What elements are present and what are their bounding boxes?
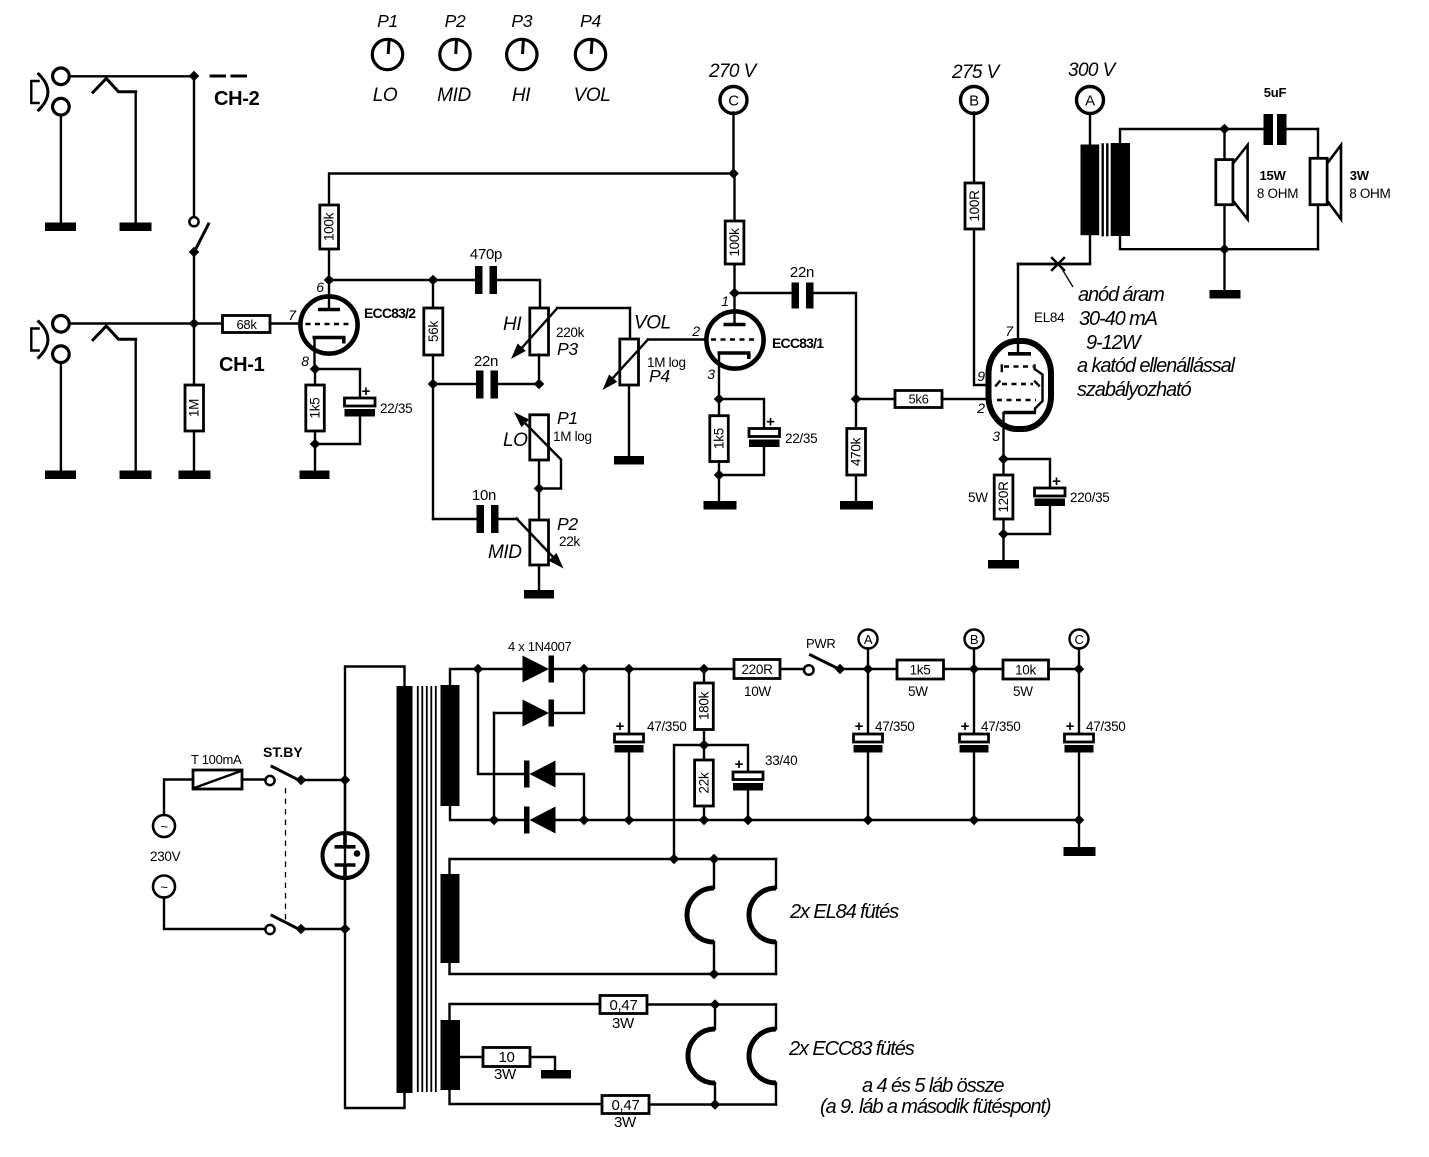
- node C12 bottom: [969, 815, 980, 826]
- wire to ground EL84 cathode: [1002, 534, 1004, 560]
- ground P4: [614, 456, 644, 465]
- node P1 bottom: [534, 483, 545, 494]
- node lamp top: [340, 775, 351, 786]
- resistor R7 470k grid leak: [847, 399, 866, 501]
- heater filament EL84 b: [749, 859, 776, 974]
- svg-text:5W: 5W: [908, 684, 928, 699]
- svg-text:C: C: [1074, 632, 1083, 647]
- ground 470k: [840, 501, 873, 510]
- node C rail junction: [1074, 664, 1085, 675]
- svg-text:PWR: PWR: [806, 636, 835, 651]
- node lamp bottom: [340, 924, 351, 935]
- svg-text:33/40: 33/40: [765, 753, 797, 768]
- svg-text:22/35: 22/35: [380, 401, 412, 416]
- svg-text:15W: 15W: [1260, 168, 1287, 183]
- switch link dashed: [285, 788, 287, 921]
- svg-text:~: ~: [160, 819, 168, 834]
- svg-text:4 x 1N4007: 4 x 1N4007: [508, 639, 572, 654]
- svg-text:56k: 56k: [426, 321, 441, 342]
- node 33/40 bottom: [743, 815, 754, 826]
- svg-text:+: +: [855, 718, 864, 735]
- svg-text:22k: 22k: [697, 772, 712, 793]
- svg-text:22n: 22n: [474, 353, 498, 370]
- svg-text:+: +: [766, 414, 775, 431]
- node cathode bottom ECC83/2: [310, 439, 321, 450]
- potentiometer knob P4: [574, 11, 611, 106]
- node heater ref tap: [669, 854, 680, 865]
- svg-text:CH-2: CH-2: [214, 88, 260, 110]
- svg-text:3W: 3W: [494, 1066, 517, 1083]
- capacitor C8 5uF: [1264, 85, 1319, 145]
- resistor R14 1k5 5W: [897, 660, 1003, 699]
- svg-text:1k5: 1k5: [712, 428, 727, 449]
- svg-text:9-12W: 9-12W: [1086, 332, 1143, 354]
- node B 275V: [951, 62, 1002, 183]
- heater filament ECC83 b: [749, 1005, 776, 1105]
- svg-text:P3: P3: [557, 339, 578, 359]
- resistor R15 10k 5W: [1003, 660, 1079, 699]
- node CH1 junction: [189, 318, 200, 329]
- ground J2 sleeve: [45, 223, 76, 232]
- switch ST.BY pole 1: [265, 767, 345, 786]
- resistor R13 220R 10W: [734, 660, 805, 700]
- svg-text:P3: P3: [511, 11, 532, 31]
- node 22k bottom: [699, 815, 710, 826]
- resistor R10 120R cathode EL84: [994, 459, 1013, 534]
- svg-text:5k6: 5k6: [908, 392, 928, 407]
- svg-text:a 4 és 5 láb össze: a 4 és 5 láb össze: [862, 1075, 1004, 1097]
- node 180k 22k junction: [699, 740, 710, 751]
- leader line to text: [1062, 269, 1073, 287]
- capacitor C12 47/350 node B: [960, 669, 1021, 820]
- svg-text:3: 3: [992, 428, 1000, 444]
- fuse F1 T 100mA: [191, 752, 242, 789]
- svg-text:47/350: 47/350: [647, 719, 687, 734]
- input jack J2 (CH-2): [31, 68, 69, 115]
- resistor R17 10 3W: [483, 1048, 555, 1084]
- ground heater center tap: [541, 1070, 571, 1079]
- svg-text:+: +: [961, 718, 970, 735]
- svg-text:szabályozható: szabályozható: [1077, 379, 1192, 401]
- node B psu: [965, 630, 984, 670]
- transformer core lines: [418, 686, 436, 1092]
- potentiometer P4 1M log VOL: [603, 308, 707, 456]
- diode D4 1N4007: [524, 807, 556, 834]
- resistor R9 100R screen: [965, 183, 989, 385]
- svg-text:220/35: 220/35: [1070, 490, 1110, 505]
- capacitor C5 22/35 cathode bypass ECC83/1: [719, 399, 817, 475]
- ground J1 sleeve: [45, 471, 76, 480]
- resistor R2 100k plate ECC83/2: [320, 205, 339, 280]
- svg-text:3W: 3W: [614, 1114, 637, 1131]
- svg-text:1: 1: [721, 293, 729, 309]
- triode U1a ECC83/1: [706, 311, 763, 399]
- resistor R8 5k6 grid stopper EL84: [856, 391, 989, 408]
- wire ECC83 heater bottom rail: [450, 1090, 603, 1104]
- svg-text:10W: 10W: [744, 684, 771, 699]
- T1 6.3V winding ECC83: [441, 1020, 461, 1090]
- wire D2 anode down: [493, 713, 495, 820]
- node D1 D2 cathodes: [579, 664, 590, 675]
- svg-text:8 OHM: 8 OHM: [1257, 186, 1298, 201]
- capacitor C9 47/350 reservoir: [615, 669, 687, 820]
- node speaker bottom: [1219, 244, 1230, 255]
- svg-text:CH-1: CH-1: [219, 354, 265, 376]
- node junction C rail: [728, 168, 739, 179]
- svg-text:+: +: [1052, 473, 1061, 490]
- wire plate row ECC83/2: [329, 279, 475, 281]
- wire fuse to switch: [242, 778, 266, 780]
- svg-text:7: 7: [288, 307, 297, 323]
- svg-text:(a 9. láb a második fütéspont): (a 9. láb a második fütéspont): [820, 1096, 1051, 1118]
- wire ECC83 heater top rail: [450, 1004, 601, 1020]
- svg-text:8 OHM: 8 OHM: [1349, 186, 1390, 201]
- svg-text:1k5: 1k5: [910, 663, 931, 678]
- potentiometer P1 1M log LO: [514, 412, 561, 520]
- node plate ECC83/2: [324, 275, 335, 286]
- resistor R16 0,47 3W top: [600, 996, 776, 1033]
- svg-text:120R: 120R: [996, 481, 1011, 513]
- wire EL84 heater bottom rail: [450, 963, 777, 974]
- resistor 1M input load: [185, 324, 204, 471]
- pilot lamp: [323, 780, 368, 929]
- svg-text:MID: MID: [488, 542, 522, 563]
- svg-text:P1: P1: [377, 11, 398, 31]
- svg-text:22n: 22n: [790, 264, 814, 281]
- node ECC83 heater bottom: [710, 1099, 721, 1110]
- diode D2 1N4007: [494, 669, 584, 727]
- node 470k top: [851, 394, 862, 405]
- svg-text:1k5: 1k5: [308, 398, 323, 419]
- svg-text:~: ~: [160, 880, 168, 895]
- diode D3 1N4007: [524, 761, 584, 821]
- ground J2 shunt: [120, 223, 152, 232]
- svg-text:B: B: [969, 93, 979, 110]
- potentiometer P2 22k MID: [517, 519, 564, 591]
- svg-text:P2: P2: [445, 11, 466, 31]
- node cathode ECC83/2: [310, 364, 321, 375]
- node plate ECC83/1: [729, 288, 740, 299]
- svg-text:230V: 230V: [150, 849, 181, 864]
- node EL84 heater bottom: [709, 969, 720, 980]
- svg-text:300 V: 300 V: [1068, 60, 1118, 81]
- note anode current text: [1077, 284, 1236, 401]
- capacitor C1 22/35 cathode bypass: [315, 369, 412, 444]
- resistor R18 0,47 3W bottom: [602, 1096, 776, 1132]
- ground EL84 cathode: [988, 560, 1019, 569]
- wire junction to heater reference: [674, 745, 704, 859]
- capacitor C3 22n tone: [433, 353, 539, 399]
- ground 1M: [179, 471, 211, 480]
- mains transformer T1 primary winding: [397, 686, 413, 1093]
- wire J2 tip to node CH2: [70, 75, 195, 77]
- svg-text:10n: 10n: [472, 487, 496, 504]
- node C9 top: [624, 664, 635, 675]
- switch PWR: [804, 655, 897, 675]
- resistor R11 180k bleeder: [695, 669, 714, 760]
- rectifier top rail: [478, 668, 734, 670]
- svg-text:HI: HI: [512, 85, 531, 106]
- wire HV bottom to bridge: [450, 806, 494, 820]
- svg-text:470p: 470p: [470, 246, 502, 263]
- svg-text:10k: 10k: [1015, 663, 1036, 678]
- potentiometer knob P1: [372, 11, 402, 106]
- svg-text:C: C: [728, 93, 739, 110]
- switch ST.BY pole 2: [265, 916, 345, 935]
- wire AC1 to D3: [478, 669, 524, 774]
- node C13 bottom: [1074, 815, 1085, 826]
- wire speaker ground: [1223, 249, 1225, 290]
- svg-text:68k: 68k: [236, 317, 257, 332]
- svg-text:22k: 22k: [559, 534, 580, 549]
- capacitor C11 47/350 node A: [854, 669, 915, 820]
- wire N to switch pole 2: [164, 898, 266, 930]
- ground P2: [524, 590, 554, 599]
- potentiometer P3 220k HI: [511, 308, 630, 384]
- capacitor C2 470p: [470, 246, 540, 308]
- ground J1 shunt: [120, 471, 152, 480]
- svg-text:3W: 3W: [1350, 168, 1370, 183]
- svg-text:2: 2: [691, 323, 700, 339]
- wire pin 6 stub: [328, 280, 330, 309]
- svg-text:+: +: [735, 756, 744, 773]
- svg-text:47/350: 47/350: [875, 719, 915, 734]
- wire pin 1 stub: [733, 293, 735, 324]
- node P3 bottom: [534, 379, 545, 390]
- dashed stubs right of CH2 node: [211, 75, 246, 78]
- wire primary loop: [345, 667, 405, 1109]
- wire 56k column down: [432, 384, 434, 519]
- node A rail junction: [863, 664, 874, 675]
- svg-text:ECC83/1: ECC83/1: [772, 335, 824, 351]
- capacitor C13 47/350 node C: [1065, 669, 1126, 820]
- node cathode bottom ECC83/1: [714, 470, 725, 481]
- potentiometer knob P2: [437, 11, 471, 106]
- X measuring point: [1052, 258, 1064, 270]
- svg-text:LO: LO: [503, 430, 528, 451]
- svg-text:A: A: [864, 632, 873, 647]
- wire HV top to bridge: [450, 669, 478, 685]
- winding center tap wire: [460, 1056, 484, 1058]
- svg-text:P1: P1: [557, 408, 578, 428]
- svg-text:270 V: 270 V: [708, 61, 759, 82]
- svg-text:180k: 180k: [697, 691, 712, 720]
- rectifier bottom rail: [494, 819, 1079, 821]
- wire negative rail to ground: [1078, 820, 1080, 847]
- node C psu: [1070, 630, 1089, 670]
- svg-text:5uF: 5uF: [1264, 85, 1287, 100]
- capacitor C4 10n: [433, 487, 518, 533]
- ground ECC83/1 cathode: [704, 501, 737, 510]
- svg-text:T 100mA: T 100mA: [191, 752, 242, 767]
- svg-text:2x ECC83 fütés: 2x ECC83 fütés: [788, 1038, 915, 1060]
- svg-text:100k: 100k: [727, 228, 742, 257]
- node C9 bottom: [624, 815, 635, 826]
- wire plate supply rail to node C: [329, 174, 734, 206]
- svg-text:5W: 5W: [968, 490, 988, 505]
- mains source L terminal: [153, 815, 175, 837]
- svg-text:HI: HI: [503, 314, 522, 335]
- svg-text:3: 3: [707, 366, 715, 382]
- svg-text:2x EL84 fütés: 2x EL84 fütés: [789, 901, 899, 923]
- svg-text:220R: 220R: [741, 662, 773, 677]
- resistor R12 22k bleeder: [695, 760, 714, 820]
- node AC2: [489, 815, 500, 826]
- svg-text:VOL: VOL: [574, 85, 611, 106]
- resistor R5 100k plate ECC83/1: [725, 174, 744, 294]
- wire to ground ECC83/2 cathode: [314, 444, 316, 471]
- triode U1b ECC83/2: [300, 296, 357, 369]
- svg-text:470k: 470k: [849, 437, 864, 466]
- resistor 68k grid stopper: [194, 316, 301, 333]
- wire L to fuse: [164, 780, 193, 816]
- svg-text:P4: P4: [649, 366, 670, 386]
- svg-text:5W: 5W: [1013, 684, 1033, 699]
- svg-text:47/350: 47/350: [1086, 719, 1126, 734]
- svg-text:22/35: 22/35: [785, 431, 817, 446]
- resistor R4 56k: [424, 280, 443, 384]
- svg-text:ST.BY: ST.BY: [263, 744, 303, 760]
- wire to ground ECC83/1 cathode: [718, 475, 720, 501]
- svg-text:9: 9: [977, 368, 985, 384]
- resistor R3 1k5 cathode ECC83/2: [306, 369, 325, 444]
- diode D1 1N4007: [523, 656, 555, 683]
- heater filament EL84 a: [687, 859, 714, 974]
- node B rail junction: [969, 664, 980, 675]
- potentiometer knob P3: [507, 11, 537, 106]
- svg-text:100k: 100k: [322, 212, 337, 241]
- svg-text:LO: LO: [373, 85, 398, 106]
- node CH2 junction: [189, 71, 200, 82]
- mains source N terminal: [153, 876, 175, 898]
- svg-text:3W: 3W: [612, 1015, 635, 1032]
- node C 270V: [708, 61, 759, 174]
- ground ECC83/2 cathode: [300, 471, 330, 480]
- input jack J1 (CH-1): [31, 316, 69, 363]
- capacitor C6 22n coupling: [735, 264, 857, 399]
- node AC1: [473, 664, 484, 675]
- svg-text:EL84: EL84: [1034, 310, 1065, 325]
- svg-text:ECC83/2: ECC83/2: [364, 305, 416, 321]
- channel selector switch: [189, 81, 209, 324]
- svg-text:8: 8: [301, 353, 309, 369]
- svg-text:10: 10: [498, 1049, 514, 1066]
- wire junction to 33/40: [704, 745, 748, 772]
- node C11 bottom: [863, 815, 874, 826]
- svg-text:0,47: 0,47: [612, 1097, 640, 1114]
- svg-text:2: 2: [976, 400, 985, 416]
- wire anode EL84 to transformer: [1018, 263, 1090, 265]
- wire J1 sleeve down: [60, 363, 62, 471]
- wire EL84 heater top rail: [450, 859, 777, 874]
- svg-text:30-40 mA: 30-40 mA: [1079, 308, 1158, 330]
- capacitor C10 33/40 bias: [733, 753, 797, 820]
- heater filament ECC83 a: [688, 1005, 715, 1105]
- output transformer T2: [1018, 129, 1318, 264]
- node speaker top: [1219, 124, 1230, 135]
- svg-text:1M log: 1M log: [553, 429, 592, 444]
- svg-text:anód áram: anód áram: [1078, 284, 1164, 306]
- svg-text:100R: 100R: [967, 190, 982, 222]
- ground psu: [1064, 847, 1096, 856]
- svg-text:+: +: [1066, 718, 1075, 735]
- pentode U2 EL84: [989, 264, 1052, 459]
- svg-text:220k: 220k: [556, 325, 585, 340]
- svg-text:+: +: [362, 383, 371, 400]
- node A psu: [859, 630, 878, 670]
- svg-text:P2: P2: [557, 514, 578, 534]
- svg-text:B: B: [970, 632, 978, 647]
- T1 HV secondary winding: [441, 685, 460, 806]
- svg-text:275 V: 275 V: [951, 62, 1002, 83]
- T1 6.3V winding EL84: [441, 874, 460, 963]
- node cathode EL84: [998, 454, 1009, 465]
- resistor R6 1k5 cathode ECC83/1: [710, 399, 729, 475]
- speaker LS1 15W: [1216, 129, 1298, 249]
- ground speaker: [1210, 290, 1241, 299]
- svg-text:0,47: 0,47: [610, 997, 638, 1014]
- node A 300V: [1068, 60, 1118, 145]
- svg-text:a katód ellenállással: a katód ellenállással: [1077, 355, 1236, 377]
- svg-text:1M: 1M: [187, 399, 202, 417]
- node 56k bottom: [428, 379, 439, 390]
- svg-text:7: 7: [1005, 323, 1014, 339]
- node cathode ECC83/1: [714, 394, 725, 405]
- node cathode bottom EL84: [998, 529, 1009, 540]
- svg-text:6: 6: [316, 279, 324, 295]
- svg-text:+: +: [616, 718, 625, 735]
- svg-text:A: A: [1085, 93, 1095, 110]
- jack J2 shunt contact: [93, 79, 136, 93]
- svg-text:VOL: VOL: [634, 313, 671, 334]
- capacitor C7 220/35 cathode bypass EL84: [1004, 459, 1110, 534]
- speaker LS2 3W: [1310, 129, 1391, 249]
- svg-text:MID: MID: [437, 85, 471, 106]
- node 56k top: [428, 275, 439, 286]
- node EL84 heater top: [709, 854, 720, 865]
- node 180k top: [699, 664, 710, 675]
- wire J2 sleeve down: [60, 115, 62, 223]
- node D3 D4 anodes: [579, 815, 590, 826]
- node ECC83 heater top: [710, 999, 721, 1010]
- wire J1 tip to node CH1: [70, 322, 195, 324]
- svg-text:P4: P4: [580, 11, 601, 31]
- jack J1 shunt contact: [93, 326, 136, 340]
- svg-text:47/350: 47/350: [981, 719, 1021, 734]
